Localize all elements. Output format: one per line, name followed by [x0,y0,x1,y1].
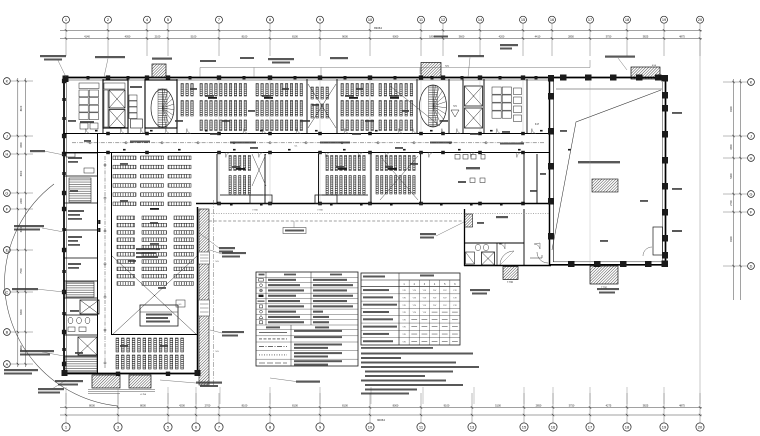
svg-text:7.700: 7.700 [507,281,514,284]
grid circle 5 (bottom) [164,423,172,431]
grid line G stem (right) [723,193,748,195]
annotation west-6 (corner) [38,388,64,390]
hatched canopy north-east [631,67,660,79]
top band partition wall x=145 [144,79,146,134]
grid circle 11 (top) [418,16,425,23]
round stair east (grid 11-12) [429,86,438,126]
elevator west strip [80,300,99,314]
grid line F stem (right) [723,211,748,213]
grid circle 10 (bottom) [366,423,374,431]
grid circle G (left) [4,190,11,197]
right dimension line outer [740,79,742,300]
middle band partition x=537 [536,154,538,204]
svg-text:7: 7 [218,17,220,22]
svg-text:9100: 9100 [444,403,450,407]
svg-text:6000: 6000 [20,170,23,176]
storage elevator west wing south [78,337,97,355]
svg-text:16: 16 [550,17,554,22]
grid circle 20 (bottom) [696,423,704,431]
grid circle 6 (bottom) [192,423,200,431]
window piers west wall [62,98,66,101]
crossing lines room C1 east [252,154,266,186]
svg-text:4275: 4275 [606,403,612,407]
balcony label box [283,228,306,234]
balcony projection dashed line [209,220,464,222]
svg-text:4875: 4875 [679,403,685,407]
note line under schedule [361,347,433,349]
svg-text:4200: 4200 [499,35,505,39]
svg-text:17: 17 [588,17,592,22]
grid line 7 stem (bottom) [218,393,220,423]
grid circle 1 (top) [63,16,70,23]
stair west strip lower [66,282,94,297]
middle band south wall fixtures [230,204,233,206]
middle classroom desks C1 [229,156,231,171]
top band partition wall x=337 [336,79,338,134]
hatched block inside hall [592,179,618,192]
outdoor stair callout 2 [222,331,244,333]
hall door symbol south-east [643,247,652,256]
grid line 11 stem (bottom) [420,393,422,423]
west wing east wall [197,207,199,374]
grid line 20 stem (bottom) [699,393,701,423]
svg-text:H: H [750,156,753,160]
grid line 19 stem (top) [663,23,665,56]
grid line C stem (left) [10,291,33,293]
svg-text:9000: 9000 [393,35,399,39]
svg-text:2100: 2100 [155,35,161,39]
outer wall west-wing south [63,373,199,375]
svg-text:J: J [750,134,752,138]
grid circle 10 (top) [367,16,374,23]
circuit schedule rows [361,286,460,288]
grid circle 15 (bottom) [520,423,528,431]
svg-text:8000: 8000 [393,403,399,407]
west wing corridor east wall / reading room west wall [111,153,113,336]
svg-text:18: 18 [625,425,630,430]
service room labels [68,157,82,159]
middle band partition x=318.5 [318,154,320,204]
grid circle 14 (top) [477,16,484,23]
junction small shaft [466,252,475,264]
corridor annotation 3 [320,142,350,144]
legend table frame [256,272,358,366]
grid circle 16 (top) [549,16,556,23]
svg-text:H: H [6,152,9,156]
svg-text:7.700: 7.700 [317,210,323,212]
annotation north-5 [330,57,348,59]
left dimension line outer [25,78,27,367]
svg-text:2700: 2700 [205,403,211,407]
grid circle F (right) [748,209,755,216]
annotation north-3b [200,60,216,62]
corner column west-south [62,370,68,376]
corridor wall fixtures [95,130,98,132]
svg-text:G: G [750,192,753,196]
middle band room inner south line [220,194,263,196]
grid circle C (left) [4,289,11,296]
annotation north-7 [458,55,484,57]
linetype rows [256,329,358,331]
reading room desks rows upper [113,156,136,160]
south-west corner stair treads [65,357,97,372]
hatched entry steps west wing south 1 [92,375,120,388]
grid line D stem (right) [723,265,748,267]
stems below building to bottom dim [65,387,67,404]
classroom desks block A2 (grid 8) [256,84,258,97]
right dimension line inner [733,79,735,300]
columns on middle band south wall [217,202,221,206]
svg-text:4875: 4875 [679,35,685,39]
svg-text:8100: 8100 [242,35,248,39]
svg-text:8100: 8100 [730,236,733,242]
core room borders emphasis [103,80,128,128]
hatched entry below junction [503,267,518,280]
grid line 6 stem (bottom) [195,393,197,423]
grid line 1 stem (bottom) [65,393,67,423]
annotation north-3 [152,58,172,60]
svg-text:83064: 83064 [374,26,382,30]
annotation west-3 [12,288,38,290]
columns on corridor walls [106,132,110,135]
middle band partition x=524 [523,154,525,204]
outer wall west (left facade) [63,77,65,374]
svg-text:G: G [5,191,8,195]
reading room projection cross lines [112,256,197,335]
doors top band to corridor [85,129,90,134]
svg-text:19: 19 [662,17,666,22]
hall inner top line [556,88,662,90]
grid circle 4 (top) [144,16,151,23]
svg-text:5100: 5100 [191,35,197,39]
grid circle 17 (bottom) [586,423,594,431]
svg-text:8100: 8100 [342,403,348,407]
svg-text:8: 8 [269,17,271,22]
stems right of building [699,39,701,404]
grid circle J (left) [4,133,11,140]
grid line 2 stem (top) [107,23,109,56]
bottom dimension line (bays) [60,407,702,409]
top dimension line (bays) [60,38,702,40]
classroom desks block A1 (grid 7) [200,84,202,97]
grid line A stem (left) [10,363,33,365]
svg-text:90064: 90064 [377,418,385,422]
middle band partition x=265 [264,154,266,204]
middle band partition x=420.5 [420,154,422,204]
hall roof diagonal line [552,90,661,250]
faint vertical grid line through hall [589,80,591,264]
annotation west-5 [4,369,38,371]
middle classroom desks C2 [326,156,328,171]
classroom desks block B2 (grid 10-11) [379,84,381,97]
grid line 1 stem (top) [65,23,67,56]
svg-text:2: 2 [107,17,109,22]
svg-text:3300: 3300 [730,144,733,150]
top band partition wall x=484 [483,79,485,134]
svg-text:16: 16 [551,425,556,430]
hatched entry steps west wing south 2 [129,375,151,388]
grid line 10 stem (bottom) [369,393,371,423]
grid circle 9 (bottom) [316,423,324,431]
corner column north-west [63,76,69,83]
west corridor wiring line [104,156,106,368]
annotation north-6 [434,36,448,38]
columns west wall at grid lines [62,79,66,83]
grid line 20 stem (top) [699,23,701,56]
annotation south-1 (outdoor stair) [55,380,83,382]
svg-text:4140: 4140 [84,35,90,39]
grid line 17 stem (top) [589,23,591,56]
grid line 10 stem (top) [369,23,371,56]
classroom desks block A0 (grid 5-7) [181,84,183,97]
grid circle K (right) [748,79,755,86]
svg-text:C: C [6,290,9,294]
hall east wall [665,77,667,266]
outer wall top (north facade) [63,77,668,79]
grid circle 1 (bottom) [62,423,70,431]
closet on hall east wall [653,227,663,255]
grid circle 8 (bottom) [266,423,274,431]
legend table header [259,274,265,276]
junction elevator [482,252,495,265]
grid line 5 stem (bottom) [167,393,169,423]
columns on north wall [64,75,68,79]
svg-text:K17: K17 [535,123,540,126]
round stair west core [158,89,167,127]
svg-text:7.700: 7.700 [252,210,258,212]
svg-text:B: B [6,330,9,334]
svg-text:3750: 3750 [606,35,612,39]
notes block [361,353,473,355]
top band partition wall x=527 [526,79,528,134]
grid line 5 stem (top) [167,23,169,56]
svg-text:8100: 8100 [730,106,733,112]
panel rects west strip top [66,153,75,157]
hatched canopy north-middle 5.5 [421,63,441,78]
svg-text:15: 15 [521,17,525,22]
svg-text:4200: 4200 [179,403,185,407]
svg-text:1: 1 [65,17,67,22]
svg-text:2850: 2850 [568,35,574,39]
svg-text:5: 5 [167,17,169,22]
grid line 12 stem (top) [442,23,444,56]
grid circle 5 (top) [165,16,172,23]
hall south wall [549,264,666,266]
window piers on north wall [87,76,90,79]
annotation north-9 (distribution box) [605,56,635,58]
grid line 16 stem (top) [551,23,553,56]
hatched canopy above west core [152,64,166,78]
grid circle 15 (top) [520,16,527,23]
crossing leader lines room (grid 9) [308,84,336,128]
junction block south wall [464,265,551,267]
grid line K stem (right) [723,81,748,83]
toilet fixtures east core [514,88,522,95]
grid circle 19 (bottom) [660,423,668,431]
hatched strip east of west wing [199,209,209,385]
annotation north-2 [95,56,125,58]
grid circle 18 (top) [624,16,631,23]
stair symbol junction [530,255,542,258]
hall columns south wall [568,261,575,267]
grid line B stem (left) [10,331,33,333]
grid line J stem (left) [10,135,33,137]
grid circle 2 (top) [105,16,112,23]
svg-text:18: 18 [625,17,629,22]
svg-text:13: 13 [470,425,475,430]
west wing service partitions [64,152,98,154]
grid line 9 stem (bottom) [319,393,321,423]
junction room label [496,216,508,218]
west wing inner wall (service strip) [97,133,99,374]
annotation west-1 (strong current shaft) [30,150,45,152]
svg-text:9000: 9000 [342,35,348,39]
annotation north-4 (ceiling mounted +5.000) [268,58,294,60]
grid circle 3 (bottom) [114,423,122,431]
strip landing 1 [199,252,210,264]
grid circle 12 (top) [440,16,447,23]
grid line 4 stem (top) [146,23,148,56]
grid line 16 stem (bottom) [552,393,554,423]
grid circle G (right) [748,191,755,198]
hall west wall [549,77,551,266]
reading room desks rows lower [117,216,135,220]
svg-text:K: K [750,80,753,84]
outdoor stair callout 1 [222,252,246,254]
classroom desks block B1 (grid 9-10) [341,84,343,97]
svg-text:-0.750: -0.750 [140,394,147,396]
annotation south-3 [296,381,320,383]
bottom dimension line (overall) [60,414,702,416]
grid line 3 stem (bottom) [117,393,119,423]
svg-text:19: 19 [662,425,667,430]
svg-text:J: J [6,134,8,138]
svg-text:2400: 2400 [20,198,23,204]
elevator shafts (grid 14) [465,86,483,106]
svg-text:5400: 5400 [730,173,733,179]
grid line 9 stem (top) [319,23,321,56]
legend table rows content [259,279,264,281]
middle band partition x=217 [216,154,218,204]
grid line E stem (left) [10,249,33,251]
annotation below junction entry [470,289,490,291]
entry steps lines [88,389,155,391]
svg-text:17: 17 [588,425,593,430]
south room desks [116,338,119,352]
grid line 7 stem (top) [218,23,220,56]
corridor annotation 4 [430,142,452,144]
svg-text:10: 10 [368,425,373,430]
svg-text:7500: 7500 [20,268,23,274]
top band partition wall x=177 [176,79,178,134]
faint vertical grid lines through plan [218,80,220,131]
doors middle band from corridor [225,153,230,158]
middle band south wall [196,203,550,205]
annotation south-2 (outdoor steps detail) [196,382,222,384]
reading room vestibule labels [146,314,172,316]
fire cannon annotation west [219,247,235,249]
grid circle F (left) [4,206,11,213]
hatched entry below hall [590,266,618,284]
annotation north-8 [500,44,518,46]
svg-text:8100: 8100 [292,35,298,39]
grid line F stem (left) [10,208,33,210]
grid circle 8 (top) [267,16,274,23]
grid line 18 stem (bottom) [626,393,628,423]
top band partition wall x=307 [306,79,308,134]
svg-text:K: K [6,79,9,83]
grid circle 7 (top) [216,16,223,23]
hall columns north wall [560,75,567,81]
svg-text:11: 11 [419,17,423,22]
svg-text:2700: 2700 [730,200,733,206]
corridor wiring line [72,142,545,144]
svg-text:8100: 8100 [292,403,298,407]
grid line H stem (right) [723,157,748,159]
svg-text:8100: 8100 [242,403,248,407]
grid line 8 stem (top) [269,23,271,56]
grid circle B (left) [4,329,11,336]
annotation southeast (outdoor stair power) [597,288,619,290]
svg-text:20: 20 [698,425,703,430]
corridor wall panels west [98,220,100,224]
small desks room grid 9 [311,87,313,99]
grid circle 13 (bottom) [468,423,476,431]
svg-text:3825: 3825 [643,35,649,39]
grid circle 17 (top) [587,16,594,23]
toilet stalls (grid 14-15) [492,87,501,94]
svg-text:15: 15 [522,425,527,430]
grid line 15 stem (top) [522,23,524,56]
grid line 18 stem (top) [626,23,628,56]
grid line 19 stem (bottom) [663,393,665,423]
reading room vestibule box [140,305,178,326]
grid circle K (left) [4,78,11,85]
hall east side annotations [672,112,682,114]
svg-text:8000: 8000 [140,403,146,407]
hall label text [578,161,620,163]
top band partition wall x=103 [102,79,104,134]
teacher desk marks [208,97,217,99]
grid line J stem (right) [723,135,748,137]
grid line K stem (left) [10,80,33,82]
rehearsal room (grid 15-16) furniture [455,155,460,160]
junction toilet fixtures [475,244,480,250]
annotation west-4 (L1A-L3A detail) [20,350,54,352]
svg-text:3825: 3825 [643,403,649,407]
junction partition walls [464,242,524,244]
smoke vent shaft vestibule [451,110,459,117]
corridor annotation 2 [230,142,256,144]
svg-text:4050: 4050 [125,35,131,39]
svg-text:E: E [6,248,9,252]
junction block west wall [464,209,466,266]
site boundary arc [5,184,119,406]
circuit schedule header [361,279,460,281]
stair west strip upper [69,176,91,178]
balcony projection dotted line [209,213,549,215]
fire cannon annotation east [420,233,436,235]
svg-text:8100: 8100 [20,105,23,111]
annotation west-2 (corridor lighting box) [14,225,44,227]
property dashed line along strip [213,200,215,386]
long annotation leader above north wall [200,67,590,69]
grid circle 19 (top) [661,16,668,23]
svg-text:3300: 3300 [20,142,23,148]
crossing leader lines room (grid 11-12) [390,86,440,126]
hall columns west wall [548,93,554,100]
grid circle H (left) [4,151,11,158]
